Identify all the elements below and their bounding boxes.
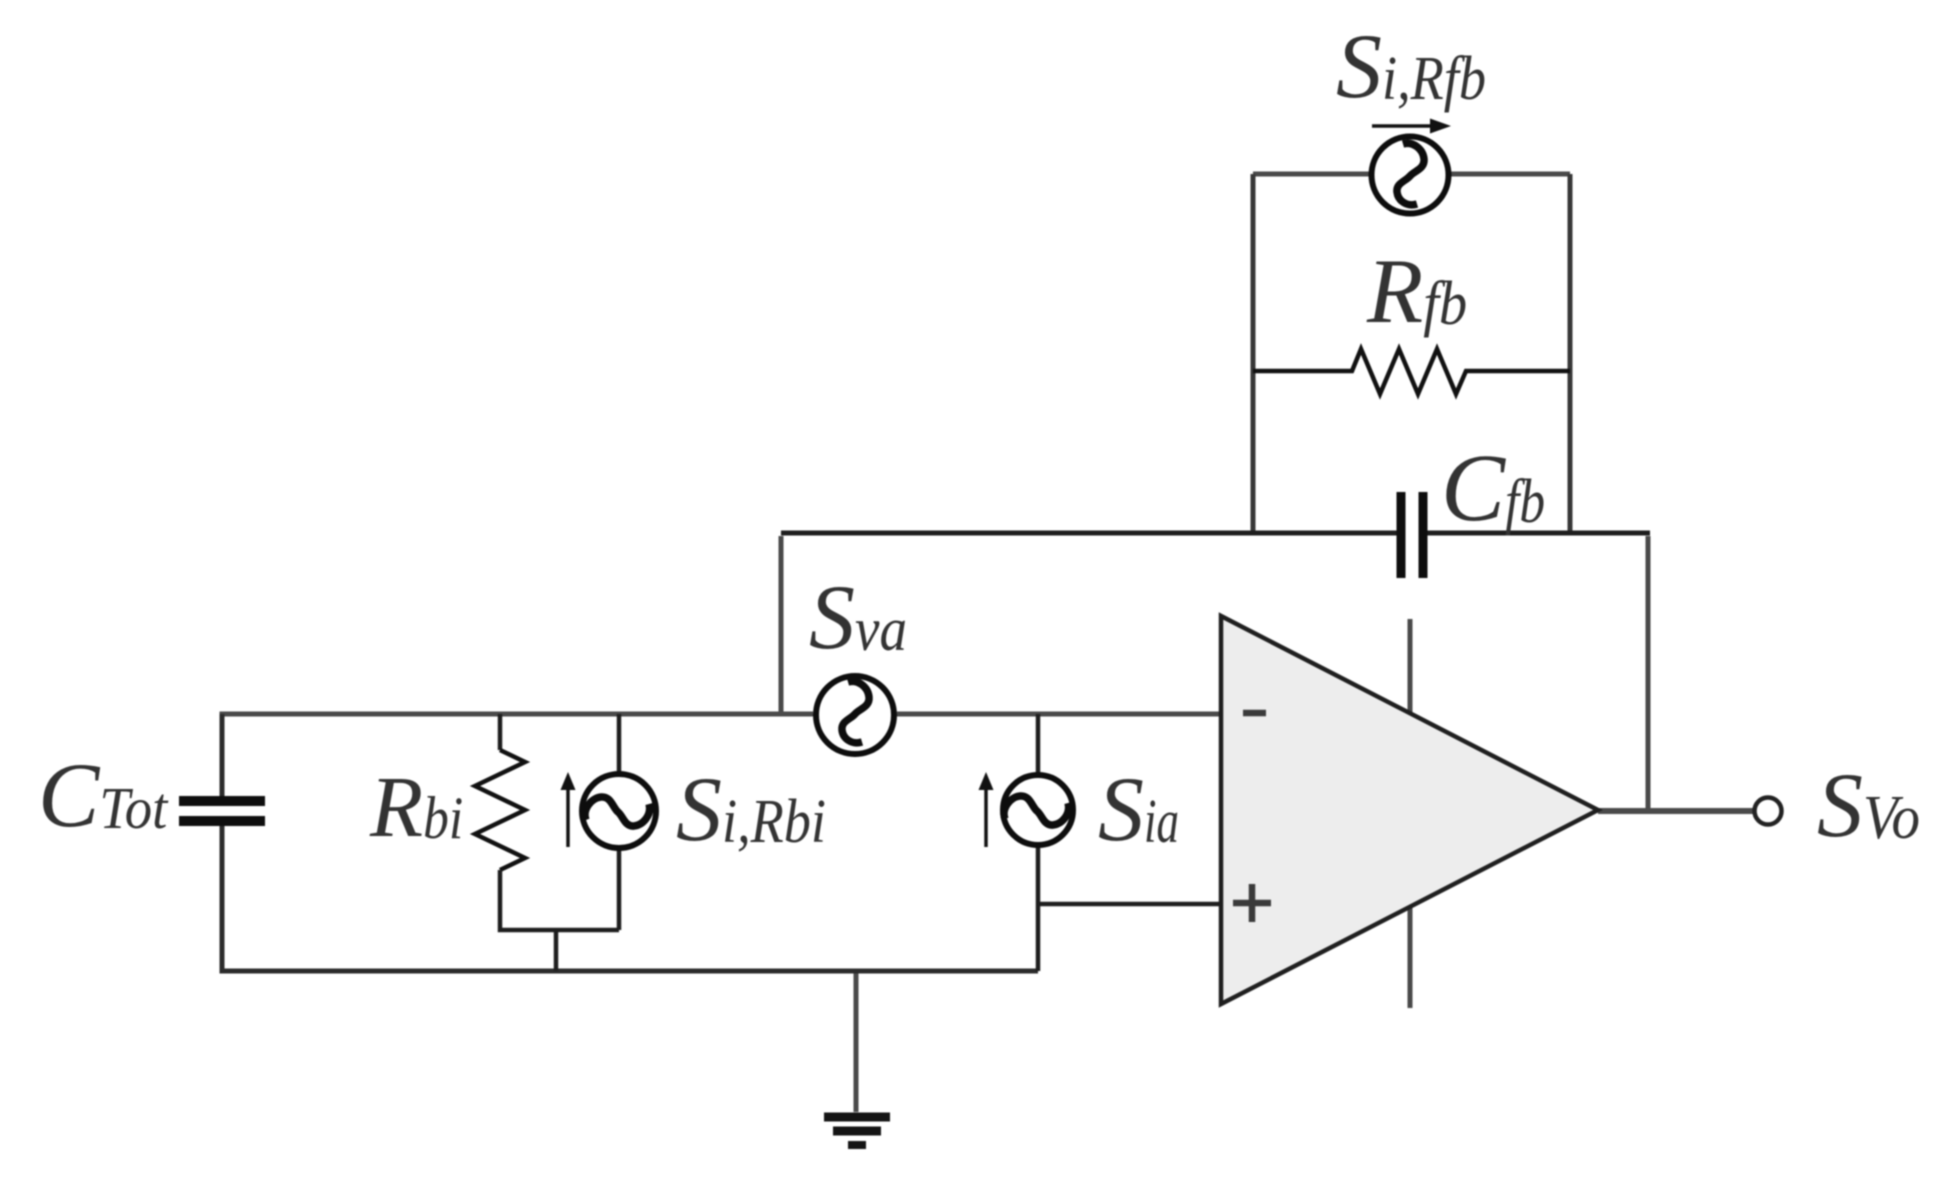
svg-text:Rbi: Rbi [369,758,463,855]
svg-text:SVo: SVo [1817,754,1920,856]
svg-text:Si,Rbi: Si,Rbi [676,758,826,860]
svg-text:Si,Rfb: Si,Rfb [1336,15,1486,117]
svg-text:Rfb: Rfb [1366,240,1467,342]
svg-text:Sva: Sva [809,566,907,668]
svg-text:CTot: CTot [38,744,169,846]
svg-text:Sia: Sia [1098,758,1179,860]
svg-text:Cfb: Cfb [1441,434,1545,541]
